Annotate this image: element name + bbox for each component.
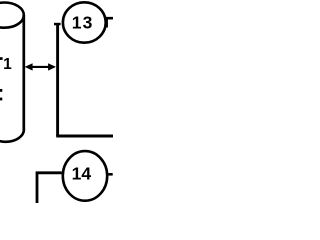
balloon 13 leader (right hook) [107,18,113,27]
double-headed arrow: right head [48,63,56,70]
left-edge dash B [0,98,2,101]
left-edge dash A [0,89,2,92]
balloon 14 leader (left corner line) [37,173,62,203]
cylinder tank: bottom arc [0,130,24,142]
balloon 14 circle [63,151,107,201]
cylinder tank: top ellipse [0,3,24,28]
double-headed arrow: left head [25,63,33,70]
svg-text:1: 1 [3,56,12,73]
label 1 (partial digit at left edge) [0,57,3,60]
balloon 14 right stub [109,173,113,176]
balloon 13 circle [63,2,106,42]
vertical line [56,23,59,136]
double-headed arrow: shaft [28,66,53,68]
svg-text:13: 13 [72,13,94,33]
svg-text:14: 14 [72,164,92,184]
horizontal line to right edge [56,134,113,137]
cylinder tank: right wall [22,15,25,130]
vertical line with T-cap: cap [54,23,61,26]
